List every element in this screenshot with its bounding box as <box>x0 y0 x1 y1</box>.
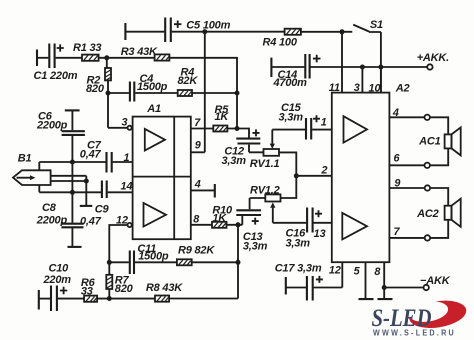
svg-text:S1: S1 <box>370 19 383 31</box>
svg-text:10: 10 <box>369 83 381 95</box>
svg-text:7: 7 <box>394 226 401 238</box>
svg-text:3,3m: 3,3m <box>279 111 304 123</box>
svg-text:820: 820 <box>115 283 134 295</box>
svg-text:8: 8 <box>374 266 380 278</box>
svg-text:9: 9 <box>394 177 400 189</box>
svg-text:R8 43K: R8 43K <box>146 282 183 294</box>
svg-text:C5 100m: C5 100m <box>186 19 230 31</box>
svg-text:1: 1 <box>124 152 130 164</box>
svg-text:1K: 1K <box>212 212 227 224</box>
svg-text:RV1.2: RV1.2 <box>250 184 280 196</box>
svg-text:AC1: AC1 <box>418 136 440 148</box>
svg-text:3,3m: 3,3m <box>286 237 311 249</box>
svg-text:R4 100: R4 100 <box>263 37 298 49</box>
svg-text:R1 33: R1 33 <box>73 42 101 54</box>
svg-text:6: 6 <box>394 153 401 165</box>
svg-text:B1: B1 <box>18 153 32 165</box>
svg-text:0,47: 0,47 <box>80 215 102 227</box>
svg-text:1500p: 1500p <box>137 81 168 93</box>
svg-text:12: 12 <box>116 215 128 227</box>
svg-text:4700m: 4700m <box>273 77 308 89</box>
svg-text:2200p: 2200p <box>36 214 68 226</box>
svg-text:820: 820 <box>86 83 105 95</box>
svg-text:0,47: 0,47 <box>80 148 102 160</box>
svg-text:4: 4 <box>194 179 201 191</box>
svg-text:C1 220m: C1 220m <box>34 70 78 82</box>
svg-text:12: 12 <box>329 265 341 277</box>
svg-text:9: 9 <box>195 139 201 151</box>
svg-text:RV1.1: RV1.1 <box>250 158 280 170</box>
svg-text:11: 11 <box>329 82 340 94</box>
svg-text:3,3m: 3,3m <box>243 241 268 253</box>
svg-text:AC2: AC2 <box>416 208 438 220</box>
svg-text:WWW.S-LED.RU: WWW.S-LED.RU <box>373 328 456 338</box>
svg-text:2200p: 2200p <box>36 119 68 131</box>
svg-text:R3 43K: R3 43K <box>121 46 158 58</box>
svg-text:82K: 82K <box>178 75 199 87</box>
svg-text:+AKK.: +AKK. <box>417 52 449 64</box>
svg-text:1K: 1K <box>215 111 230 123</box>
svg-text:A1: A1 <box>146 103 161 115</box>
svg-text:4: 4 <box>392 107 399 119</box>
svg-text:8: 8 <box>193 214 199 226</box>
svg-text:7: 7 <box>194 117 201 129</box>
svg-text:14: 14 <box>121 180 133 192</box>
svg-text:3: 3 <box>354 82 360 94</box>
svg-text:5: 5 <box>354 266 361 278</box>
svg-text:C9: C9 <box>95 204 110 216</box>
svg-text:220m: 220m <box>43 274 72 286</box>
svg-text:1500p: 1500p <box>138 250 169 262</box>
svg-text:33: 33 <box>81 285 93 297</box>
svg-text:3,3m: 3,3m <box>222 155 247 167</box>
svg-text:C10: C10 <box>49 263 70 275</box>
svg-text:13: 13 <box>314 228 326 240</box>
svg-text:R9 82K: R9 82K <box>178 245 215 257</box>
svg-text:3: 3 <box>122 116 128 128</box>
svg-text:1: 1 <box>321 117 327 129</box>
svg-text:C17 3,3m: C17 3,3m <box>275 263 322 275</box>
svg-text:−AKK: −AKK <box>420 275 451 287</box>
svg-text:A2: A2 <box>395 83 410 95</box>
svg-text:C8: C8 <box>42 202 57 214</box>
svg-text:2: 2 <box>321 164 328 176</box>
